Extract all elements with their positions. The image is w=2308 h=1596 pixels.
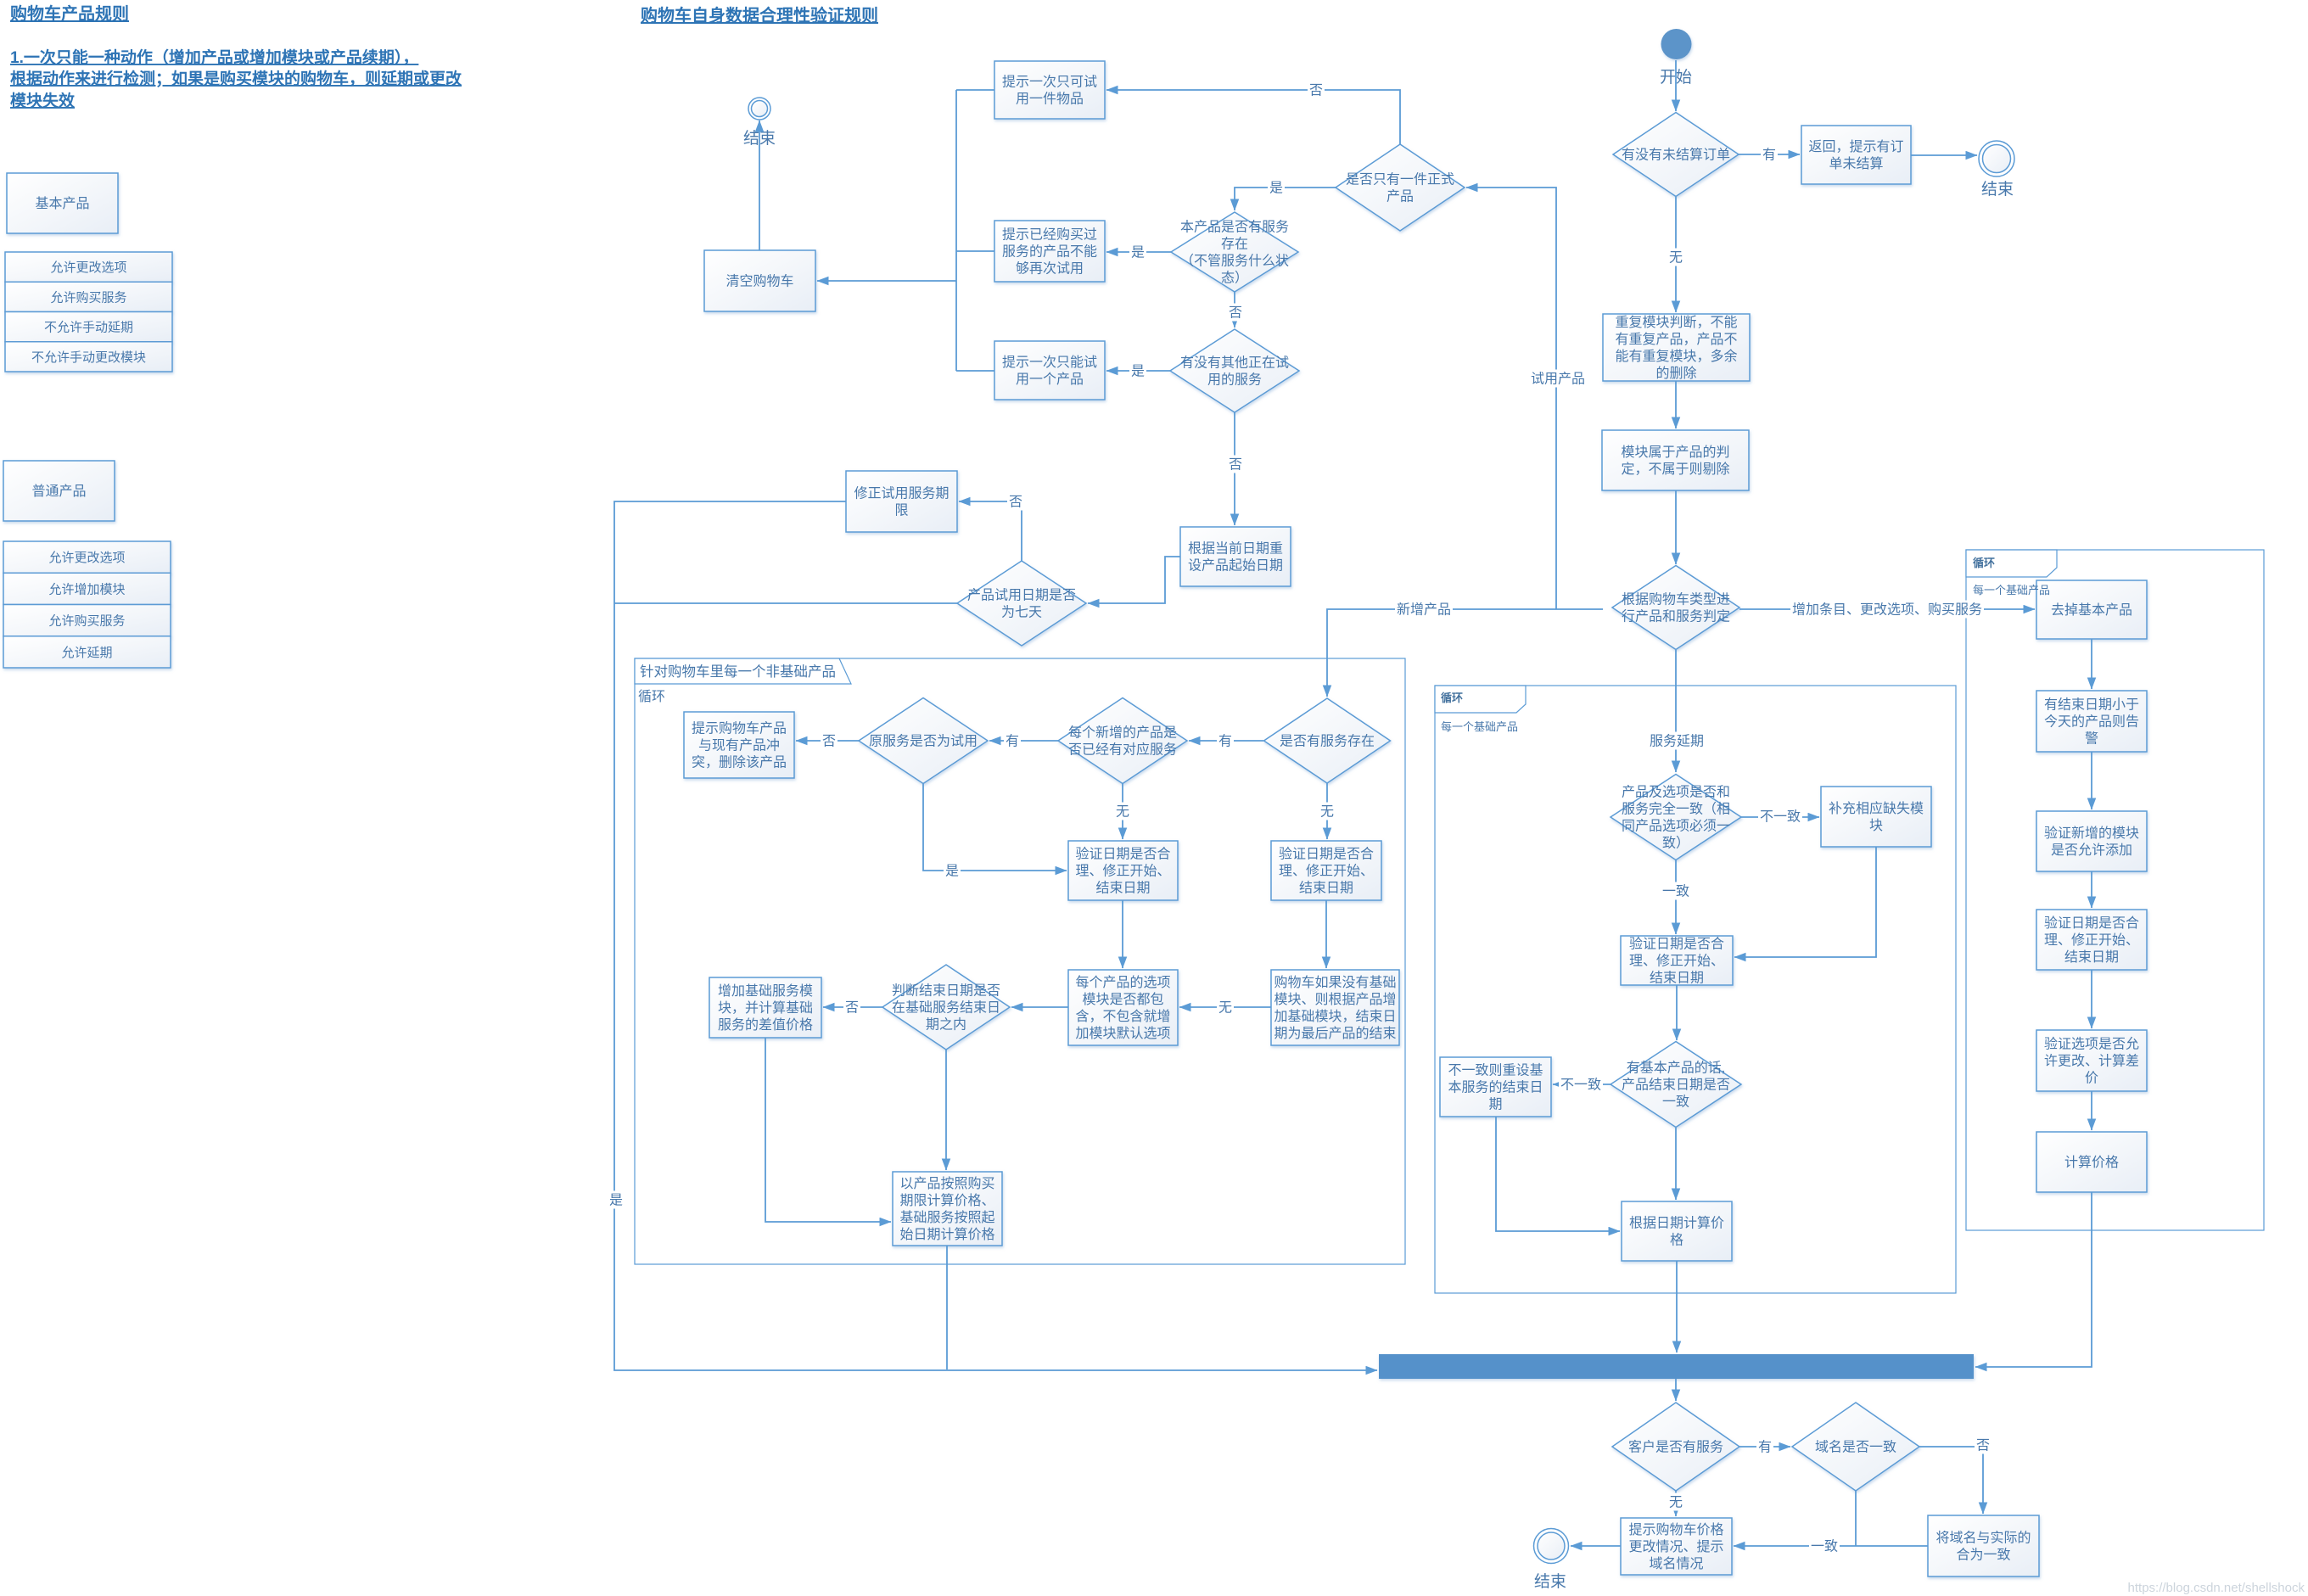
label 是3 [1129,362,1146,380]
wire 产品试用日期 是 left join [614,602,957,604]
svg-text:无: 无 [1320,805,1334,820]
wire 是否只有一件正式产品 否 to 提示一次只可试用一件物品 [1106,90,1400,144]
svg-text:计算价格: 计算价格 [2064,1154,2119,1170]
label 否5 [821,732,837,750]
wire 验证日期是否合理R to 购物车如果没有 [1325,900,1327,968]
svg-text:客户是否有服务: 客户是否有服务 [1628,1440,1723,1455]
wire 有没有未结算订单 无 to 重复模块判断 [1675,197,1677,312]
svg-text:无: 无 [1218,1001,1232,1016]
svg-text:循环: 循环 [1441,692,1463,704]
svg-text:允许更改选项: 允许更改选项 [48,551,125,565]
svg-text:不允许手动延期: 不允许手动延期 [44,321,133,335]
process box 验证日期是否合理M [1621,936,1733,986]
svg-text:允许增加模块: 允许增加模块 [48,582,125,596]
loop container 循环 每一个基础产品 (middle) [1435,686,1956,1293]
svg-text:https://blog.csdn.net/shellsho: https://blog.csdn.net/shellshock [2128,1581,2305,1595]
label 否6 [843,999,860,1016]
label 无3 [1319,803,1336,820]
wire 提示一次只能试用 stub [956,370,994,372]
svg-text:购物车产品规则: 购物车产品规则 [10,3,129,24]
label 试用产品 [1529,370,1587,388]
wire 产品及选项 一致 to 验证日期是否合理M [1675,860,1677,934]
svg-text:不一致: 不一致 [1560,1078,1601,1093]
label 是4 [608,1191,625,1209]
decision diamond 是否只有一件正式产品 [1336,144,1465,231]
svg-text:否: 否 [822,735,836,749]
svg-text:试用产品: 试用产品 [1531,372,1585,387]
wire 试用产品 junction to 是否只有一件正式产品 [1466,188,1556,609]
svg-text:否: 否 [1229,306,1242,321]
svg-text:一致: 一致 [1811,1539,1838,1554]
wire 模块属于产品的判定 to 根据购物车类型 [1675,490,1677,564]
label 增加条目 [1790,601,1984,619]
svg-text:允许延期: 允许延期 [61,646,112,660]
svg-text:针对购物车里每一个非基础产品: 针对购物车里每一个非基础产品 [640,664,836,680]
process box 每个产品的选项模块是否都包含 [1068,970,1178,1045]
process box 将域名与实际的合为一致 [1928,1515,2039,1576]
label 不一致2 [1559,1076,1603,1094]
wire 域名是否一致 否 to 将域名与实际的合为一致 [1919,1447,1983,1514]
wire 产品试用日期 否 to 修正试用服务期限 [959,501,1022,561]
wire 有基本产品 不一致 to 不一致则重设 [1553,1084,1611,1085]
svg-text:有: 有 [1762,148,1776,163]
svg-text:1.一次只能一种动作（增加产品或增加模块或产品续期），: 1.一次只能一种动作（增加产品或增加模块或产品续期）， [10,48,418,67]
wire 根据日期计算价格 to bar [1676,1261,1678,1352]
wire 原服务是否为试用 否 to 提示购物车产品 [796,740,859,742]
process box 返回提示有订单未结算 [1801,126,1911,184]
svg-text:允许购买服务: 允许购买服务 [48,614,125,629]
process box 修正试用服务期限 [846,471,957,532]
label 无4 [1217,999,1234,1016]
wire 提示boxes merge vertical [955,90,957,371]
process box 验证日期是否合理R2 [2036,910,2147,970]
process box 基本产品 [7,173,118,233]
label 无5 [1667,1493,1684,1511]
svg-text:是: 是 [945,865,959,879]
wire 有没有其他 是 to 提示一次只能试用一个产品 [1106,370,1171,372]
label 是1 [1268,179,1285,197]
process box 验证日期是否合理L [1068,841,1178,900]
end node 结束 (top right) [1979,141,2014,199]
wire 修正试用服务期限 out 左转下行 [614,501,1377,1370]
label 新增产品 [1395,601,1453,619]
decision diamond 有没有其他正在试用的服务 [1170,329,1299,412]
svg-text:不一致: 不一致 [1760,809,1801,825]
wire 将域名 to 提示购物车价格 [1734,1545,1928,1547]
svg-text:根据动作来进行检测；如果是购买模块的购物车，则延期或更改: 根据动作来进行检测；如果是购买模块的购物车，则延期或更改 [10,69,462,88]
start node 开始 [1660,29,1692,87]
end node 结束 (top middle) [743,98,776,148]
svg-text:提示购物车产品与现有产品冲突，删除该产品: 提示购物车产品与现有产品冲突，删除该产品 [692,721,787,770]
svg-text:增加条目、更改选项、购买服务: 增加条目、更改选项、购买服务 [1792,602,1982,618]
svg-text:购物车自身数据合理性验证规则: 购物车自身数据合理性验证规则 [641,5,878,25]
process box 有结束日期小于今天的产品则告警 [2036,691,2147,752]
svg-text:增加基础服务模块，并计算基础服务的差值价格: 增加基础服务模块，并计算基础服务的差值价格 [718,983,813,1033]
wire 根据购物车类型 服务延期 to 产品及选项 [1675,650,1677,772]
wire 返回提示 to 结束 [1911,154,1977,156]
paragraph rule text [10,48,462,110]
svg-text:不允许手动更改模块: 不允许手动更改模块 [31,350,146,365]
wire 客户是否有服务 无 to 提示购物车价格 [1675,1491,1677,1516]
wire 每个新增 有 to 原服务是否为试用 [989,740,1058,742]
decision diamond 根据购物车类型进行产品和服务判定 [1612,566,1739,650]
svg-text:否: 否 [1976,1439,1990,1453]
wire bar to 客户是否有服务 [1675,1379,1677,1401]
label 否3 [1227,456,1244,473]
label 无1 [1667,249,1684,266]
decision diamond 本产品是否有服务存在 [1171,212,1298,292]
svg-text:原服务是否为试用: 原服务是否为试用 [869,734,978,749]
svg-text:有: 有 [1758,1440,1772,1455]
svg-text:模块失效: 模块失效 [10,91,75,110]
decision diamond 是否有服务存在 [1264,698,1391,783]
wire 增加基础服务模块 to 以产品按照 [765,1038,891,1222]
svg-text:无: 无 [1669,1496,1683,1510]
label 一致2 [1809,1537,1840,1555]
wire 是否只有一件正式产品 是 to 本产品是否有服务存在 [1235,188,1336,210]
wire 不一致则重设 to 根据日期计算价格 [1496,1117,1620,1231]
process box 提示购物车产品与现有产品冲突 [684,712,794,778]
label 否1 [1308,81,1325,99]
svg-text:普通产品: 普通产品 [31,484,86,499]
wire 根据当前日期重设 to 产品试用日期是否为七天 [1088,557,1180,603]
wire 重复模块判断 to 模块属于产品的判定 [1675,381,1677,428]
process box 根据当前日期重设产品起始日期 [1180,527,1291,586]
wire 每个新增 无 to 验证日期是否合理L [1122,783,1123,839]
svg-text:结束: 结束 [1534,1572,1566,1591]
svg-text:每一个基础产品: 每一个基础产品 [1441,720,1518,733]
decision diamond 每个新增的产品是否已经有对应服务 [1058,698,1187,784]
svg-text:提示已经购买过服务的产品不能够再次试用: 提示已经购买过服务的产品不能够再次试用 [1002,227,1097,277]
svg-text:允许更改选项: 允许更改选项 [50,260,126,275]
decision diamond 有基本产品的话产品结束日期是否一致 [1611,1042,1741,1128]
wire 域名是否一致 一致 down [1855,1491,1857,1546]
wire 根据购物车类型 新增产品 to 是否有服务存在 [1327,609,1603,697]
decision diamond 客户是否有服务 [1612,1403,1739,1491]
label 无2 [1114,803,1131,820]
wire 判断结束日期 否 to 增加基础服务模块 [823,1006,882,1008]
wire 验证日期是否合理L to 每个产品的选项 [1122,900,1123,968]
label 一致1 [1661,882,1691,900]
loop container 针对购物车里每一个非基础产品 [635,658,1405,1264]
svg-text:循环: 循环 [1973,557,1995,569]
wire 去掉基本产品 to 有结束日期小于 [2091,639,2092,689]
svg-text:循环: 循环 [638,689,665,704]
svg-text:有: 有 [1006,734,1019,749]
svg-text:清空购物车: 清空购物车 [725,274,793,289]
wire 客户是否有服务 有 to 域名是否一致 [1739,1446,1790,1448]
label 有3 [1217,732,1234,750]
process box 模块属于产品的判定 [1602,430,1749,490]
svg-text:是否有服务存在: 是否有服务存在 [1280,734,1375,749]
wire 验证新增的模块 to 验证日期是否合理R2 [2091,871,2092,908]
label 否4 [1007,493,1024,511]
label 有4 [1756,1438,1773,1456]
decision diamond 判断结束日期是否在基础服务结束日期之内 [882,965,1010,1050]
process box 清空购物车 [704,250,815,311]
svg-text:是: 是 [1269,182,1283,196]
wire 验证日期是否合理M to 有基本产品 [1676,985,1678,1040]
synchronization bar [1379,1354,1974,1379]
svg-text:无: 无 [1669,251,1683,266]
decision diamond 产品及选项是否和服务完全一致 [1611,775,1741,860]
svg-text:否: 否 [1009,496,1022,510]
process box 根据日期计算价格 [1622,1201,1732,1261]
process box 补充相应缺失模块 [1821,787,1931,847]
wire 本产品 是 to 提示已经购买过 [1106,251,1171,253]
label 是5 [944,862,961,880]
svg-text:服务延期: 服务延期 [1650,734,1704,749]
svg-text:域名是否一致: 域名是否一致 [1815,1440,1896,1455]
wire 有基本产品 to 根据日期计算价格 [1675,1128,1677,1200]
decision diamond 产品试用日期是否为七天 [957,561,1086,646]
svg-text:新增产品: 新增产品 [1397,602,1451,618]
svg-text:每一个基础产品: 每一个基础产品 [1973,584,2050,596]
label 是2 [1129,244,1146,261]
process box 提示一次只能试用一个产品 [994,341,1105,400]
process box 提示购物车价格更改情况 [1621,1518,1732,1575]
wire 提示一次只可试用 stub [956,89,994,91]
svg-text:一致: 一致 [1662,884,1689,899]
process box 不一致则重设基本服务的结束日期 [1440,1057,1551,1117]
svg-text:有: 有 [1218,734,1232,749]
process box 购物车如果没有基础模块 [1271,970,1399,1045]
process box 增加基础服务模块 [709,977,821,1038]
end node 结束 (bottom) [1534,1529,1569,1592]
label 服务延期 [1648,732,1706,750]
process box 重复模块判断 [1603,314,1750,381]
process box 以产品按照购买期限计算价格 [893,1172,1002,1246]
label 否7 [1975,1436,1991,1454]
wire 验证日期是否合理R2 to 验证选项 [2091,970,2092,1028]
svg-text:是: 是 [1131,365,1145,379]
wire 每个产品的选项 to 判断结束日期 [1011,1006,1068,1008]
wire 购物车如果没有 无 to 每个产品的选项 [1179,1006,1271,1008]
label 有2 [1004,732,1021,750]
wire 验证选项 to 计算价格 [2091,1091,2092,1130]
svg-text:是: 是 [1131,246,1145,260]
process box 验证选项是否允许更改计算差价 [2036,1030,2147,1091]
decision diamond 原服务是否为试用 [859,698,988,784]
wire 原服务是否为试用 是 to 验证日期是否合理L [923,783,1067,871]
wire 计算价格 to bar [1975,1192,2092,1367]
wire 开始 to 有没有未结算订单 [1675,60,1677,111]
decision diamond 有没有未结算订单 [1613,113,1739,197]
process box 验证新增的模块是否允许添加 [2036,811,2147,871]
svg-text:否: 否 [845,1001,859,1016]
wire 清空购物车 to 结束 [759,120,760,250]
wire 有没有未结算订单 有 to 返回提示 [1739,154,1800,155]
wire 是否有服务存在 有 to 每个新增 [1189,740,1263,742]
decision diamond 域名是否一致 [1792,1403,1919,1491]
wire 判断结束日期 to 以产品按照购买期限 [945,1050,947,1170]
legend table 普通产品 rules [3,541,171,668]
svg-text:结束: 结束 [1981,180,2014,199]
wire 产品及选项 不一致 to 补充相应缺失模块 [1741,816,1819,818]
label 不一致1 [1758,808,1802,826]
wire 提示已经购买过 stub [956,250,994,252]
svg-text:无: 无 [1116,805,1129,820]
svg-text:允许购买服务: 允许购买服务 [50,290,126,305]
svg-text:去掉基本产品: 去掉基本产品 [2051,602,2132,618]
wire 根据购物车类型 to 去掉基本产品 [1739,608,2035,610]
legend table 基本产品 rules [5,252,172,372]
loop container 循环 每一个基础产品 (right) [1966,550,2264,1230]
wire 补充相应缺失模块 to 验证日期是否合理M [1734,847,1876,957]
label 有1 [1761,146,1778,164]
label 否2 [1227,304,1244,322]
wire 有结束日期小于 to 验证新增的模块 [2091,752,2092,809]
wire 有没有其他 否 to 根据当前日期重设 [1234,412,1235,525]
process box 提示已经购买过服务的产品不能够再次试用 [994,221,1105,282]
wire 是否有服务存在 无 to 验证日期是否合理R [1326,783,1328,839]
svg-text:是: 是 [609,1194,623,1208]
process box 普通产品 [3,461,115,521]
wire 本产品 否 to 有没有其他正在试用 [1234,292,1235,328]
svg-text:否: 否 [1229,458,1242,473]
svg-text:基本产品: 基本产品 [35,196,89,211]
svg-text:否: 否 [1309,84,1323,98]
process box 验证日期是否合理R [1271,841,1381,900]
svg-text:有没有未结算订单: 有没有未结算订单 [1622,147,1730,163]
wire 提示购物车价格 to 结束 [1571,1545,1621,1547]
process box 提示一次只可试用一件物品 [994,61,1105,119]
wire 以产品按照购买期限 down join [946,1246,948,1369]
process box 去掉基本产品 [2036,580,2147,639]
wire merge to 清空购物车 [817,280,956,282]
process box 计算价格 [2036,1132,2147,1192]
